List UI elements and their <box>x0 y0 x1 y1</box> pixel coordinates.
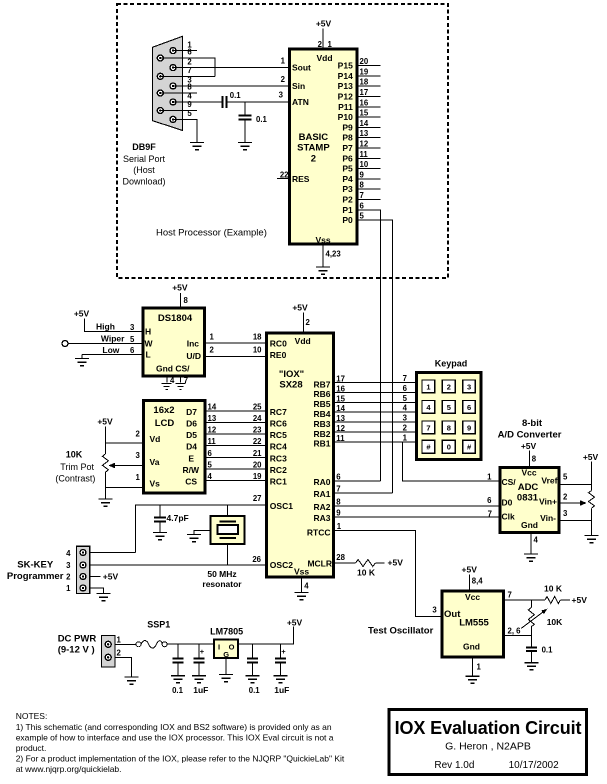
wire SX28 RB1 pin11 to keypad 1 <box>334 441 415 443</box>
svg-text:LM555: LM555 <box>459 618 489 629</box>
svg-text:P14: P14 <box>338 71 353 81</box>
svg-text:0.1: 0.1 <box>542 646 554 655</box>
wire LM555 pins 2,6 to pot bottom <box>505 634 532 636</box>
svg-text:D5: D5 <box>186 430 197 440</box>
svg-text:P3: P3 <box>342 184 353 194</box>
svg-text:RA1: RA1 <box>313 489 330 499</box>
key 5 <box>442 401 455 414</box>
svg-text:50 MHz: 50 MHz <box>207 569 236 579</box>
svg-text:RES: RES <box>292 174 310 184</box>
svg-text:P7: P7 <box>342 143 353 153</box>
svg-text:1: 1 <box>426 382 430 391</box>
svg-text:Test Oscillator: Test Oscillator <box>368 626 434 637</box>
svg-text:1) This schematic (and corresp: 1) This schematic (and corresponding IOX… <box>16 722 332 732</box>
DB9F pin 6 <box>157 55 163 61</box>
svg-text:+5V: +5V <box>583 452 599 462</box>
svg-text:D6: D6 <box>186 419 197 429</box>
wire DS1804 CS/ pin 7 stub <box>180 376 182 382</box>
svg-text:4,23: 4,23 <box>326 250 342 259</box>
wire LM7805 G to ground <box>225 658 227 675</box>
wire DB9 pin2 to Sout <box>173 67 289 69</box>
IC U1 BASIC STAMP 2 body <box>289 49 357 244</box>
svg-text:BASIC: BASIC <box>299 132 329 143</box>
ground at C4 <box>171 676 185 683</box>
svg-text:13: 13 <box>336 414 345 423</box>
wire stamp P11 stub <box>357 106 381 108</box>
svg-text:11: 11 <box>208 437 217 446</box>
svg-text:2: 2 <box>311 154 316 165</box>
svg-text:22: 22 <box>253 437 262 446</box>
svg-text:P12: P12 <box>338 92 353 102</box>
DB9F pin 3 <box>170 83 176 89</box>
DB9F pin 8 <box>157 90 163 96</box>
wire LM555 Gnd pin1 to ground <box>472 657 474 676</box>
key 0 <box>442 440 455 453</box>
svg-text:8: 8 <box>447 423 451 432</box>
svg-text:Gnd: Gnd <box>463 642 480 652</box>
svg-text:G. Heron , N2APB: G. Heron , N2APB <box>445 741 531 753</box>
key 6 <box>463 401 476 414</box>
svg-text:1: 1 <box>66 584 71 593</box>
wire stamp P1 pin 6 to SX28 RA0 <box>357 210 381 481</box>
svg-text:P0: P0 <box>342 215 353 225</box>
svg-text:5: 5 <box>187 109 192 118</box>
ground at SK-KEY <box>97 594 111 601</box>
DB9F pin 7 <box>157 73 163 79</box>
ground at DS1804 Gnd <box>162 384 172 390</box>
svg-text:U/D: U/D <box>186 351 201 361</box>
ground at C2 <box>238 143 252 150</box>
resistor R3 pot at ADC <box>589 491 595 509</box>
wire resonator bottom to OSC2 net <box>227 544 229 565</box>
wire +5V down through pot to ground <box>104 427 106 500</box>
resistor R5 10K pot vertical <box>528 608 534 648</box>
svg-text:6: 6 <box>487 496 492 505</box>
wire +5V to LM555 Vcc pins 8,4 <box>469 575 471 592</box>
svg-text:7: 7 <box>508 591 512 600</box>
svg-text:7: 7 <box>336 485 340 494</box>
svg-text:Sout: Sout <box>292 63 311 73</box>
wire stamp P9 stub <box>357 126 381 128</box>
SK-KEY pin 2 <box>80 574 86 580</box>
svg-text:9: 9 <box>336 509 341 518</box>
svg-text:8: 8 <box>184 296 189 305</box>
svg-text:5: 5 <box>403 394 408 403</box>
svg-text:1: 1 <box>477 663 482 672</box>
module 16x2 LCD body <box>143 401 205 493</box>
svg-text:13: 13 <box>208 414 217 423</box>
svg-text:0.1: 0.1 <box>230 91 242 100</box>
wire SX28 RB7 pin17 to keypad 7 <box>334 382 415 384</box>
svg-text:4: 4 <box>304 582 309 591</box>
svg-text:Inc: Inc <box>187 339 200 349</box>
svg-text:11: 11 <box>360 150 369 159</box>
wire stamp Vss to ground pins 4,23 <box>322 244 324 267</box>
label "IOX" SX28 <box>279 369 304 390</box>
svg-text:2: 2 <box>66 573 71 582</box>
ground at C8 <box>524 663 538 670</box>
svg-text:1: 1 <box>117 636 122 645</box>
key 4 <box>422 401 435 414</box>
svg-text:RA0: RA0 <box>313 477 330 487</box>
wire SX28 RB3 pin13 to keypad 3 <box>334 421 415 423</box>
svg-text:P10: P10 <box>338 112 353 122</box>
svg-text:P13: P13 <box>338 81 353 91</box>
svg-text:7: 7 <box>360 191 364 200</box>
svg-text:1: 1 <box>281 57 286 66</box>
capacitor C8 0.1 <box>526 647 537 662</box>
svg-text:4: 4 <box>66 549 71 558</box>
svg-text:1: 1 <box>487 473 492 482</box>
svg-text:RC6: RC6 <box>270 419 287 429</box>
svg-text:10/17/2002: 10/17/2002 <box>509 760 559 771</box>
wire stamp P14 stub <box>357 75 381 77</box>
label DB9F Serial Port <box>122 142 165 187</box>
svg-text:P5: P5 <box>342 164 353 174</box>
svg-text:8: 8 <box>360 181 365 190</box>
svg-text:20: 20 <box>253 460 262 469</box>
svg-text:1: 1 <box>136 473 141 482</box>
svg-text:15: 15 <box>336 394 345 403</box>
svg-text:2: 2 <box>281 75 286 84</box>
wire DS1804 Gnd pin 4 stub <box>166 376 168 382</box>
label DC PWR (9-12V) <box>58 634 97 656</box>
svg-text:P1: P1 <box>342 205 353 215</box>
svg-text:24: 24 <box>253 414 262 423</box>
svg-text:Vcc: Vcc <box>521 468 536 478</box>
svg-text:2: 2 <box>563 492 568 501</box>
svg-text:I: I <box>218 643 220 652</box>
wire stamp P0 pin 5 to SX28 RA1 <box>357 220 392 493</box>
svg-text:Low: Low <box>102 345 119 355</box>
svg-text:6: 6 <box>403 384 408 393</box>
svg-text:RC4: RC4 <box>270 442 287 452</box>
svg-text:P15: P15 <box>338 61 353 71</box>
svg-text:5: 5 <box>208 460 213 469</box>
svg-text:RA3: RA3 <box>313 513 330 523</box>
svg-text:at www.njqrp.org/quickielab.: at www.njqrp.org/quickielab. <box>16 764 122 774</box>
ground at DS1804 CS/ <box>176 384 186 390</box>
svg-text:3: 3 <box>66 561 71 570</box>
svg-text:6: 6 <box>336 473 341 482</box>
wire SX28 MCLR pin28 to resistor <box>334 562 356 564</box>
svg-text:17: 17 <box>336 375 345 384</box>
svg-text:2: 2 <box>117 649 122 658</box>
svg-text:12: 12 <box>360 140 369 149</box>
svg-text:+5V: +5V <box>316 19 332 29</box>
svg-text:High: High <box>96 321 115 331</box>
wire DC PWR pin2 to ground <box>115 657 132 677</box>
wire +5V to DS1804 H <box>85 319 143 332</box>
svg-text:10 K: 10 K <box>544 584 563 594</box>
DB9F pin 1 <box>170 48 176 54</box>
svg-text:4: 4 <box>208 472 213 481</box>
svg-text:A/D Converter: A/D Converter <box>498 429 562 440</box>
ground at trim pot <box>98 499 112 506</box>
ground at C5 <box>192 676 206 683</box>
capacitor C5 1uF <box>193 644 204 676</box>
ground at C6 <box>246 676 260 683</box>
svg-text:3: 3 <box>563 509 568 518</box>
svg-text:5: 5 <box>447 403 451 412</box>
svg-text:ATN: ATN <box>292 97 309 107</box>
wire stamp P10 stub <box>357 116 381 118</box>
wiper arrow to LCD Va <box>108 463 143 469</box>
wire stamp P3 stub <box>357 188 381 190</box>
svg-text:6: 6 <box>187 48 192 57</box>
ground at LM555 <box>466 676 480 683</box>
svg-text:12: 12 <box>336 424 345 433</box>
svg-text:(Host: (Host <box>133 165 155 175</box>
svg-text:8: 8 <box>187 83 192 92</box>
wire ADC Gnd pin4 to ground <box>530 533 532 554</box>
capacitor C7 1uF <box>275 644 286 676</box>
capacitor C4 0.1 <box>172 644 183 676</box>
IC U2 DS1804 body <box>143 308 204 376</box>
label 8-bit A/D Converter <box>498 418 562 440</box>
svg-text:+5V: +5V <box>521 441 537 451</box>
svg-text:D0: D0 <box>502 498 513 508</box>
wire stamp P13 stub <box>357 85 381 87</box>
ground at LM7805 <box>219 675 233 682</box>
svg-text:18: 18 <box>360 78 369 87</box>
wire LCD D4 pin11 to SX28 RC4 pin22 <box>205 445 267 447</box>
svg-text:RB1: RB1 <box>313 439 330 449</box>
svg-text:16x2: 16x2 <box>153 405 174 416</box>
svg-text:14: 14 <box>208 403 217 412</box>
wire junction down to shunt cap <box>244 102 246 116</box>
ground at resonator <box>187 535 201 542</box>
svg-text:+5V: +5V <box>97 417 113 427</box>
svg-text:OSC1: OSC1 <box>270 501 293 511</box>
svg-text:4.7pF: 4.7pF <box>167 513 189 523</box>
svg-text:RTCC: RTCC <box>307 528 331 538</box>
svg-text:16: 16 <box>336 384 345 393</box>
svg-text:Gnd: Gnd <box>521 520 538 530</box>
svg-text:RB2: RB2 <box>313 429 330 439</box>
svg-text:+5V: +5V <box>462 565 478 575</box>
svg-text:+5V: +5V <box>287 618 303 628</box>
svg-text:Vs: Vs <box>150 479 161 489</box>
svg-text:Sin: Sin <box>292 81 305 91</box>
connector J1 DB9F shell <box>152 36 182 130</box>
ground at Low <box>75 359 89 366</box>
wire SX28 RB5 pin15 to keypad 5 <box>334 401 415 403</box>
svg-text:10K: 10K <box>547 617 563 627</box>
wire SX28 RA2 pin8 to ADC D0 pin6 <box>334 505 499 507</box>
svg-text:RC5: RC5 <box>270 430 287 440</box>
svg-text:Vss: Vss <box>315 235 330 245</box>
svg-text:5: 5 <box>563 473 568 482</box>
svg-text:8,4: 8,4 <box>472 577 484 586</box>
key 8 <box>442 421 455 434</box>
ground at ADC pot <box>585 536 599 543</box>
svg-text:Vdd: Vdd <box>295 336 311 346</box>
svg-text:DB9F: DB9F <box>132 142 156 152</box>
svg-text:LCD: LCD <box>155 418 175 429</box>
svg-text:P9: P9 <box>342 122 353 132</box>
svg-text:P4: P4 <box>342 174 353 184</box>
svg-text:3: 3 <box>467 382 471 391</box>
wire resonator top to OSC1 net <box>227 505 229 516</box>
svg-text:R/W: R/W <box>182 465 200 475</box>
key hash-right <box>463 440 476 453</box>
svg-text:LM7805: LM7805 <box>210 627 243 637</box>
svg-text:10 K: 10 K <box>357 568 376 578</box>
svg-text:26: 26 <box>252 555 261 564</box>
svg-text:16: 16 <box>360 98 369 107</box>
svg-text:RC2: RC2 <box>270 465 287 475</box>
DB9F pin 2 <box>170 65 176 71</box>
wire LCD D5 pin12 to SX28 RC5 pin23 <box>205 433 267 435</box>
capacitor C3 4.7pF <box>159 505 161 517</box>
svg-text:17: 17 <box>360 88 369 97</box>
svg-text:+5V: +5V <box>572 595 588 605</box>
svg-text:2) For a product implementatio: 2) For a product implementation of the I… <box>16 754 345 764</box>
wire SX28 RB6 pin16 to keypad 6 <box>334 391 415 393</box>
wire LCD D7 pin14 to SX28 RC7 pin25 <box>205 410 267 412</box>
wire LCD E pin6 to SX28 RC3 pin21 <box>205 456 267 458</box>
wire ADC Vref pin5 to +5V <box>559 483 592 485</box>
svg-text:0.1: 0.1 <box>172 686 184 695</box>
svg-text:Trim Pot: Trim Pot <box>60 462 94 472</box>
svg-text:14: 14 <box>336 404 345 413</box>
SK-KEY pin 3 <box>80 562 86 568</box>
svg-text:1uF: 1uF <box>274 685 289 695</box>
svg-text:+5V: +5V <box>388 558 404 568</box>
svg-text:SX28: SX28 <box>279 379 302 390</box>
wire DB9 pin3 to Sin <box>173 85 289 87</box>
svg-text:E: E <box>188 453 194 463</box>
svg-text:28: 28 <box>336 553 345 562</box>
keypad body <box>416 373 481 460</box>
svg-text:3: 3 <box>432 606 437 615</box>
svg-text:10: 10 <box>253 346 262 355</box>
svg-text:Vd: Vd <box>150 434 161 444</box>
svg-text:14: 14 <box>360 119 369 128</box>
svg-text:22: 22 <box>280 171 289 180</box>
pot arrow <box>521 609 547 629</box>
svg-text:Wiper: Wiper <box>101 334 125 344</box>
svg-text:IOX Evaluation Circuit: IOX Evaluation Circuit <box>395 718 582 738</box>
svg-text:Vss: Vss <box>294 566 309 576</box>
svg-text:RB7: RB7 <box>313 379 330 389</box>
svg-text:19: 19 <box>253 472 262 481</box>
svg-text:SSP1: SSP1 <box>147 620 170 630</box>
wire DS1804 Inc pin1 to SX28 RC0 pin18 <box>204 342 266 344</box>
svg-text:3: 3 <box>279 91 284 100</box>
wire stamp P5 stub <box>357 168 381 170</box>
svg-text:13: 13 <box>360 129 369 138</box>
svg-text:7: 7 <box>403 374 407 383</box>
svg-text:+5V: +5V <box>74 309 90 319</box>
svg-text:CS/: CS/ <box>502 477 517 487</box>
capacitor C1 0.1 series <box>222 96 226 108</box>
svg-text:11: 11 <box>336 434 345 443</box>
svg-text:5: 5 <box>130 335 135 344</box>
key 7 <box>422 421 435 434</box>
svg-text:6: 6 <box>467 403 471 412</box>
svg-text:4: 4 <box>403 404 408 413</box>
key 9 <box>463 421 476 434</box>
wire +5V down to Vref net <box>591 462 593 521</box>
wire SK-KEY pin1 to ground <box>90 588 104 594</box>
wire stamp P6 stub <box>357 157 381 159</box>
wire DB9 pin4 to series cap <box>173 101 222 103</box>
ground at C3 <box>153 533 167 540</box>
wire stamp P12 stub <box>357 96 381 98</box>
svg-text:Vref: Vref <box>541 476 557 486</box>
ground at stamp Vss <box>316 267 330 274</box>
svg-text:10K: 10K <box>66 450 83 460</box>
regulator U5 LM7805 body <box>214 640 238 659</box>
svg-text:RB6: RB6 <box>313 389 330 399</box>
connector J2 SK-KEY body <box>76 546 89 593</box>
wire stamp P2 stub <box>357 199 381 201</box>
svg-text:10: 10 <box>360 160 369 169</box>
svg-text:MCLR: MCLR <box>307 559 332 569</box>
svg-text:L: L <box>146 350 151 360</box>
svg-text:RA2: RA2 <box>313 502 330 512</box>
svg-text:Download): Download) <box>122 177 165 187</box>
svg-text:DC PWR: DC PWR <box>58 634 97 645</box>
svg-text:8-bit: 8-bit <box>522 418 543 429</box>
ground at ADC Gnd <box>524 554 538 561</box>
svg-text:O: O <box>229 643 235 652</box>
svg-text:D4: D4 <box>186 442 197 452</box>
svg-text:0: 0 <box>447 443 451 452</box>
svg-text:0.1: 0.1 <box>256 115 268 124</box>
svg-text:G: G <box>223 650 229 659</box>
svg-text:+5V: +5V <box>172 283 188 293</box>
wire stamp P15 stub <box>357 65 381 67</box>
wire +5V to DS1804 pin 8 <box>179 293 181 308</box>
IC U6 LM555 body <box>442 591 504 657</box>
svg-text:3: 3 <box>403 414 408 423</box>
wire resistor to +5V <box>375 562 384 564</box>
connector J3 DC PWR body <box>102 636 115 668</box>
wire SX28 RA0 pin6 to stamp P1 <box>334 480 381 482</box>
svg-text:6: 6 <box>130 346 135 355</box>
wire LCD Vd pin2 tap <box>105 442 143 444</box>
ground at DC PWR <box>124 677 138 684</box>
wire stamp P7 stub <box>357 147 381 149</box>
svg-text:RB5: RB5 <box>313 399 330 409</box>
svg-text:Gnd CS/: Gnd CS/ <box>156 363 190 373</box>
crystal symbol <box>218 522 239 538</box>
svg-text:1: 1 <box>210 332 215 341</box>
svg-text:RC1: RC1 <box>270 477 287 487</box>
svg-text:RC3: RC3 <box>270 453 287 463</box>
wire SK-KEY pin2 to +5V <box>90 576 101 578</box>
svg-text:4: 4 <box>534 536 539 545</box>
svg-text:8: 8 <box>532 454 537 463</box>
label BASIC STAMP 2 <box>297 132 330 165</box>
wire +5V to Vdd pin 21 <box>322 29 324 50</box>
wire Low to DS1804 L <box>82 355 143 359</box>
wire LCD D6 pin13 to SX28 RC6 pin24 <box>205 422 267 424</box>
key 1 <box>422 380 435 393</box>
wire SX28 RB2 pin12 to keypad 2 <box>334 431 415 433</box>
svg-text:Programmer: Programmer <box>7 571 64 582</box>
key 3 <box>463 380 476 393</box>
svg-text:20: 20 <box>360 57 369 66</box>
ground at SX28 Vss <box>295 593 309 600</box>
svg-text:RC0: RC0 <box>270 339 287 349</box>
svg-text:23: 23 <box>253 426 262 435</box>
svg-text:+5V: +5V <box>292 303 308 313</box>
svg-text:Vdd: Vdd <box>316 53 332 63</box>
